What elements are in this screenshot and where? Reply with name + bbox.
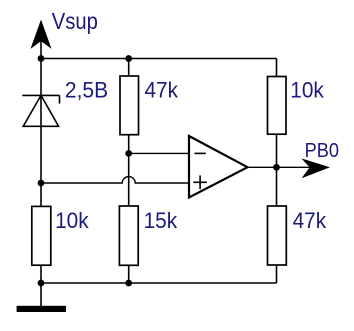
node: non-inverting input junction (38, 180, 45, 187)
wire: inverting input (from middle branch to op-amp) (129, 152, 189, 154)
resistor R4 10k (top right) (268, 77, 287, 135)
svg-text:Vsup: Vsup (52, 7, 98, 34)
node: Vsup rail left junction (38, 55, 45, 62)
node: inverting input junction (125, 150, 132, 157)
op-amp U1 (189, 136, 248, 198)
node: output junction (273, 164, 280, 171)
resistor R1 10k (bottom left) (32, 206, 51, 265)
svg-text:2,5B: 2,5B (65, 77, 108, 103)
wire: non-inverting input with hop over middle branch (41, 177, 189, 183)
wire: top horizontal rail (41, 58, 277, 60)
svg-text:10k: 10k (55, 207, 89, 233)
zener diode VD1 2,5B (22, 95, 59, 126)
op-amp plus marker (193, 181, 207, 183)
node: bottom rail left junction (38, 280, 45, 287)
port arrow PB0 (303, 159, 329, 177)
op-amp minus marker (195, 152, 206, 154)
svg-text:PB0: PB0 (305, 140, 339, 162)
resistor R3 15k (bottom middle) (119, 206, 138, 265)
svg-text:10k: 10k (290, 77, 324, 103)
node: bottom rail middle junction (125, 280, 132, 287)
resistor R2 47k (top middle) (120, 76, 139, 135)
svg-text:47k: 47k (293, 207, 327, 233)
wire: op-amp output (248, 166, 312, 168)
power symbol Vsup (arrow up) (32, 21, 51, 48)
wire: bottom horizontal rail (41, 282, 277, 284)
ground (17, 306, 66, 312)
resistor R5 47k (bottom right) (268, 206, 287, 265)
wire: left branch vertical (Vsup to ground) (40, 30, 42, 306)
wire: middle branch vertical (128, 59, 130, 284)
wire: right branch vertical (276, 59, 278, 284)
svg-text:47k: 47k (145, 77, 179, 103)
node: Vsup rail middle junction (125, 55, 132, 62)
svg-text:15k: 15k (144, 207, 178, 233)
